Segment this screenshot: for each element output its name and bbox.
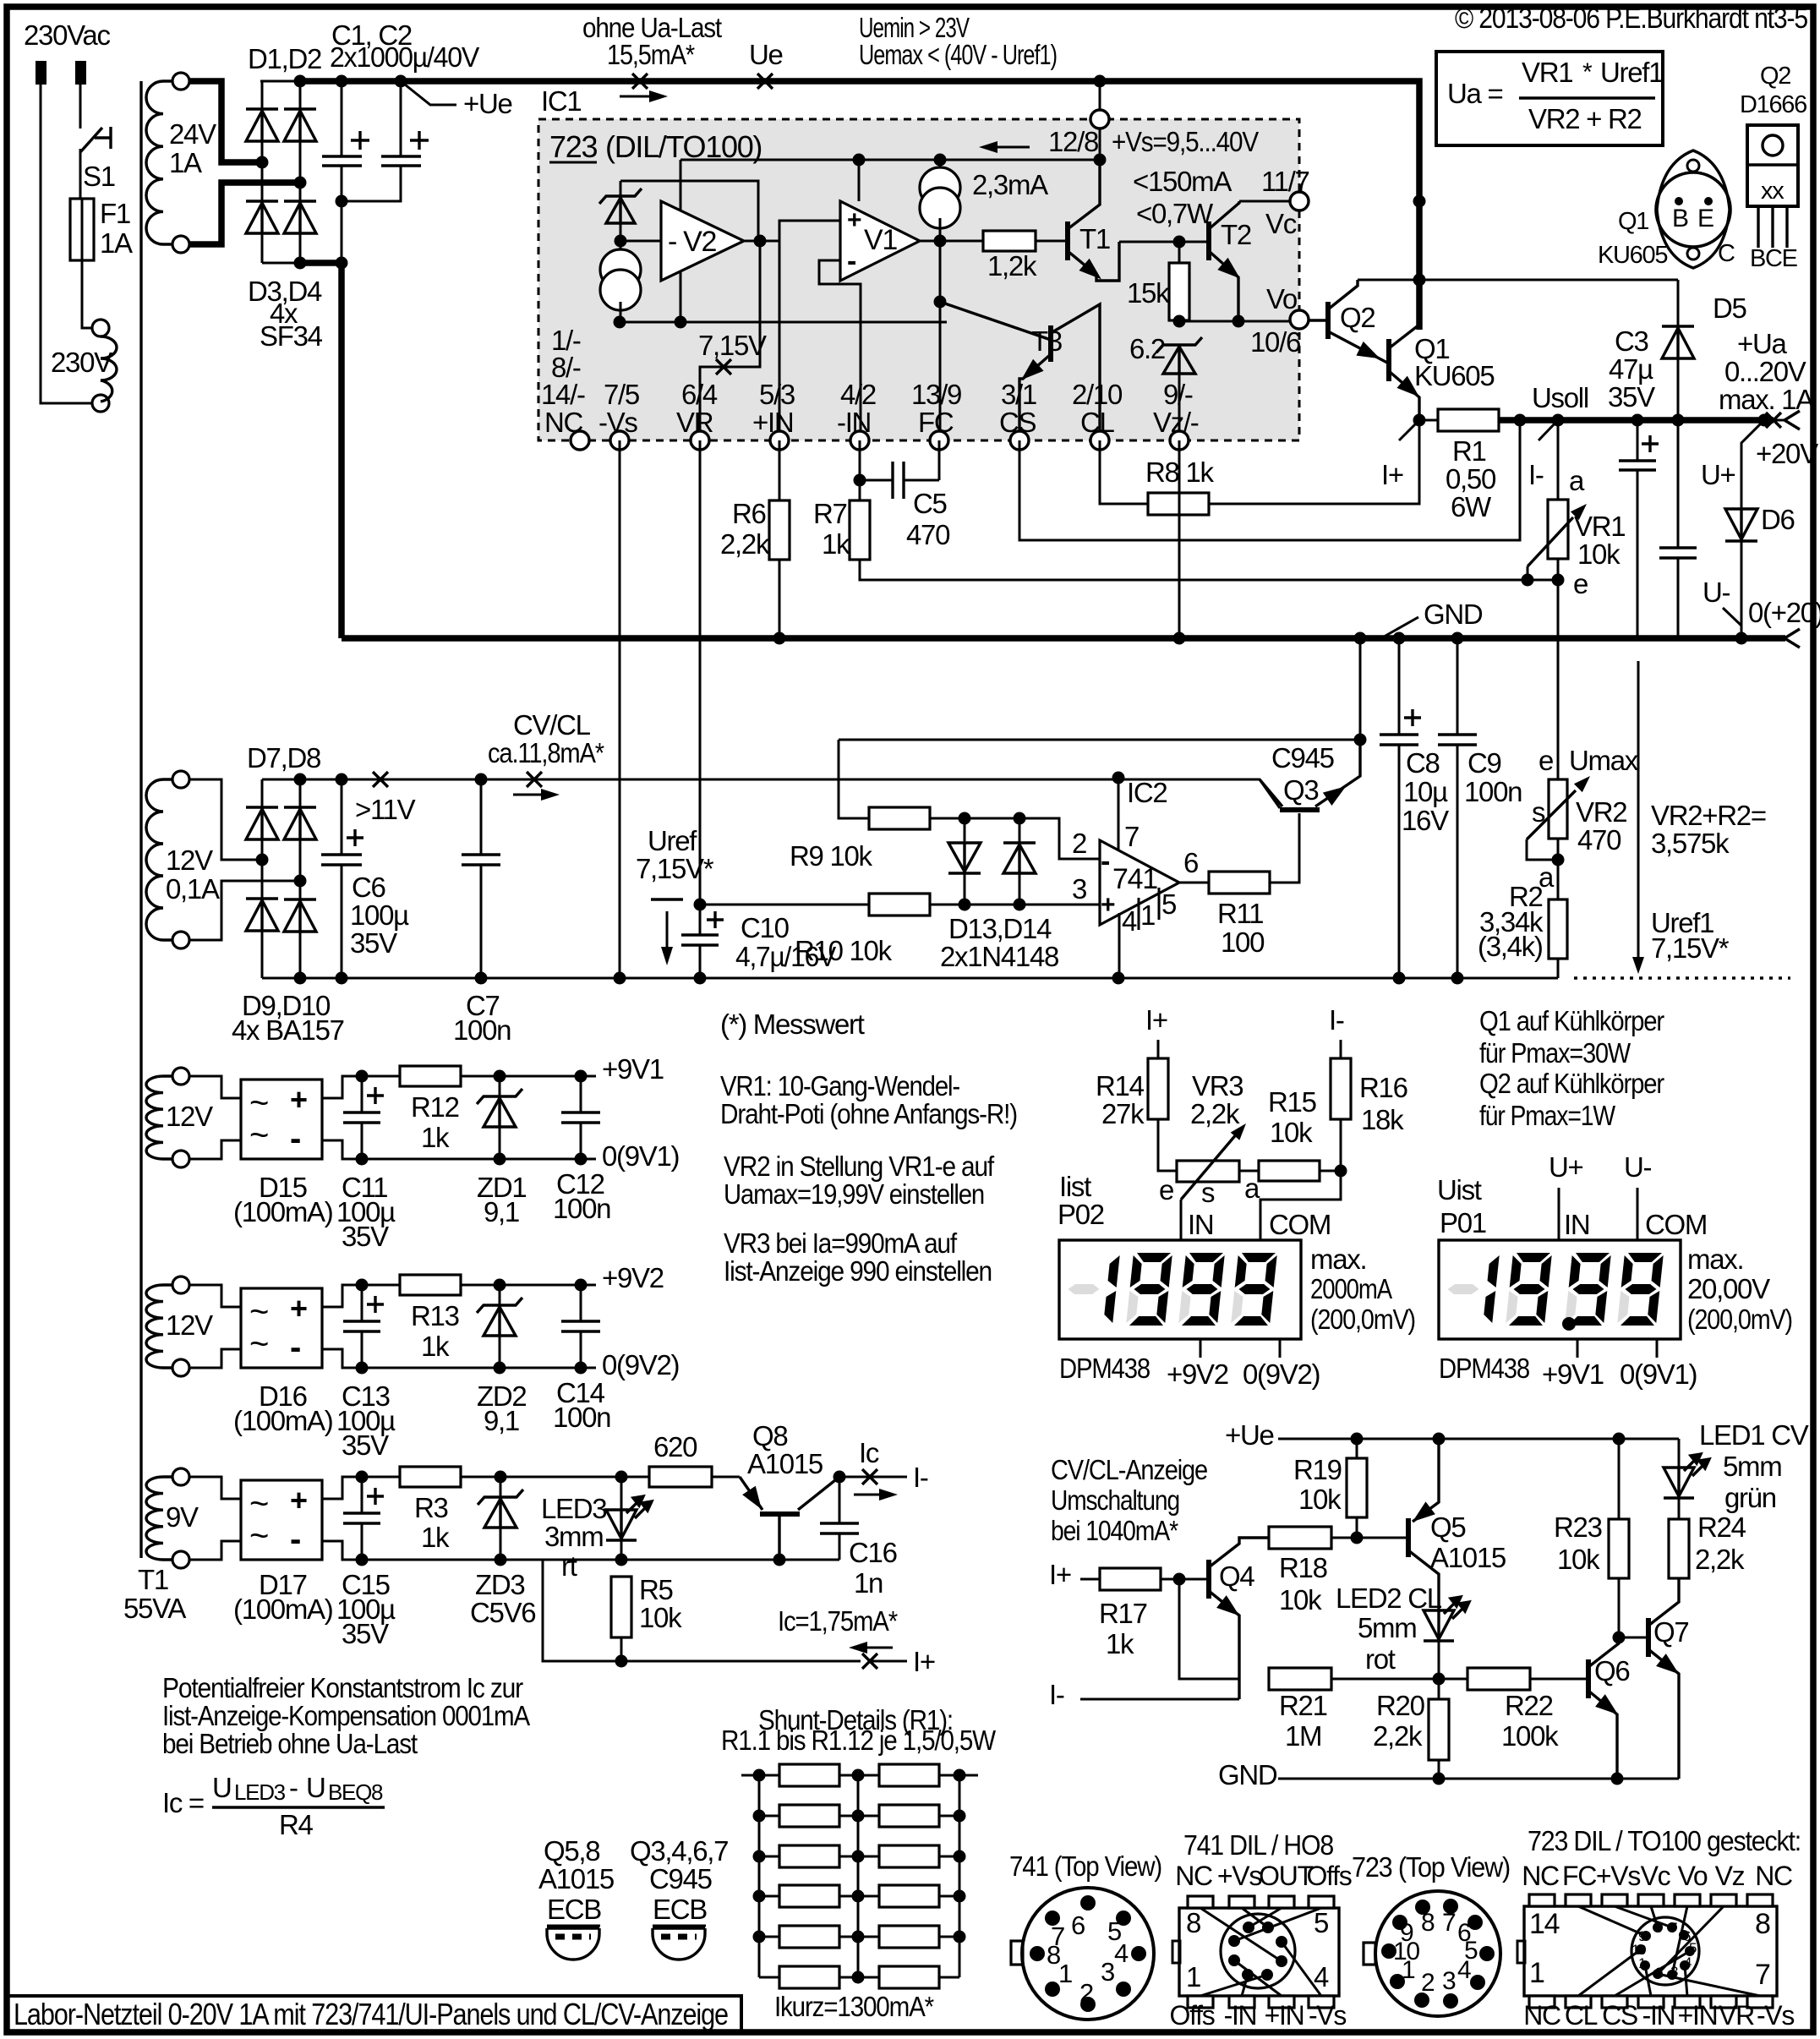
node R1 left xyxy=(1413,414,1426,427)
wire winding to block bottom xyxy=(189,1349,241,1368)
wire 723 internal +V rail xyxy=(680,160,682,322)
svg-text:max.: max. xyxy=(1687,1244,1743,1275)
svg-text:VR1: VR1 xyxy=(1574,511,1625,542)
break mark Ue xyxy=(757,74,773,89)
transistor Q4 xyxy=(1209,1538,1269,1699)
package Q1 KU605 TO3 xyxy=(1598,150,1735,269)
svg-text:2,3mA: 2,3mA xyxy=(972,169,1048,200)
svg-text:VR1: VR1 xyxy=(1522,57,1572,88)
svg-text:3: 3 xyxy=(1101,1957,1114,1987)
svg-text:max. 1A: max. 1A xyxy=(1719,384,1814,415)
svg-text:~: ~ xyxy=(249,1517,268,1555)
package Q3,4,6,7 C945 ECB xyxy=(630,1835,728,1960)
svg-text:E: E xyxy=(1697,205,1713,232)
svg-text:ECB: ECB xyxy=(653,1894,707,1925)
svg-text:2,2k: 2,2k xyxy=(1373,1720,1423,1752)
svg-text:Ic=1,75mA*: Ic=1,75mA* xyxy=(778,1605,898,1637)
svg-text:7: 7 xyxy=(1670,1920,1677,1936)
svg-text:+Ua: +Ua xyxy=(1737,328,1788,359)
svg-text:Uref: Uref xyxy=(648,825,697,856)
svg-text:ca.11,8mA*: ca.11,8mA* xyxy=(488,737,604,768)
svg-text:(*) Messwert: (*) Messwert xyxy=(720,1009,865,1040)
wire I+ stub xyxy=(870,1660,907,1663)
wire jog to I+ rail xyxy=(543,1560,861,1661)
svg-text:+Vs=9,5...40V: +Vs=9,5...40V xyxy=(1112,126,1259,157)
svg-text:-: - xyxy=(290,1120,300,1157)
svg-text:U+: U+ xyxy=(1549,1151,1583,1183)
svg-text:+Vs: +Vs xyxy=(1217,1861,1261,1891)
svg-text:T2: T2 xyxy=(1221,219,1251,250)
node T2 base 15k xyxy=(1173,236,1186,249)
mains plug pins xyxy=(36,61,86,85)
svg-text:VR2: VR2 xyxy=(1576,796,1626,828)
fuse F1 xyxy=(70,198,133,260)
diode D5 xyxy=(1662,280,1746,420)
wire mains right to switch xyxy=(79,85,82,128)
transformer winding 12V xyxy=(146,1068,213,1167)
node U+ stub xyxy=(1758,414,1771,427)
svg-text:0,1A: 0,1A xyxy=(166,873,220,905)
wire -IN down xyxy=(859,440,861,500)
svg-text:(200,0mV): (200,0mV) xyxy=(1687,1304,1792,1335)
svg-text:BCE: BCE xyxy=(1750,245,1798,272)
wire Q3 emitter riser to GND xyxy=(1359,638,1362,740)
meter P01 wiring xyxy=(1437,1151,1707,1240)
svg-text:10k: 10k xyxy=(1557,1544,1600,1575)
label max 20,00V xyxy=(1687,1244,1792,1335)
svg-text:D5: D5 xyxy=(1713,292,1746,324)
node V1 output xyxy=(934,235,947,248)
wire minus rail down to GND xyxy=(338,263,345,638)
svg-text:BEQ8: BEQ8 xyxy=(328,1779,383,1805)
svg-text:3,575k: 3,575k xyxy=(1651,828,1730,859)
svg-text:100n: 100n xyxy=(1464,776,1522,807)
wire winding to block bottom xyxy=(189,1541,241,1560)
wire Q2 collector line xyxy=(1358,279,1678,282)
wire 723 internal +V rail top xyxy=(680,159,1100,161)
svg-text:*: * xyxy=(1582,58,1593,86)
node GND C8 xyxy=(1393,632,1406,645)
wire V1 plus riser xyxy=(858,160,861,201)
svg-text:470: 470 xyxy=(1577,824,1621,856)
capacitor C5 470 xyxy=(860,462,950,550)
capacitor C9 xyxy=(1438,638,1522,978)
transformer 12V 0,1A winding xyxy=(146,771,220,948)
svg-text:13/9: 13/9 xyxy=(911,379,961,410)
svg-text:Offs: Offs xyxy=(1307,1861,1352,1891)
transformer winding 12V xyxy=(146,1276,213,1376)
pin label VR xyxy=(676,379,718,438)
svg-text:R1.1 bis R1.12 je 1,5/0,5W: R1.1 bis R1.12 je 1,5/0,5W xyxy=(721,1725,997,1756)
svg-text:bei 1040mA*: bei 1040mA* xyxy=(1051,1515,1178,1546)
node cvcl R23 xyxy=(1613,1433,1626,1446)
svg-text:e: e xyxy=(1573,568,1588,599)
svg-text:-: - xyxy=(1101,845,1109,877)
resistor R2 xyxy=(1549,839,1567,978)
svg-text:CV/CL: CV/CL xyxy=(513,709,591,741)
svg-text:Uemax < (40V - Uref1): Uemax < (40V - Uref1) xyxy=(859,39,1057,70)
svg-text:OUT: OUT xyxy=(1259,1861,1313,1891)
pin label Vz xyxy=(1153,379,1199,438)
svg-text:10k: 10k xyxy=(639,1602,682,1633)
resistor 1,2k xyxy=(983,231,1037,282)
label D9,D10 4x BA157 xyxy=(232,990,344,1046)
svg-text:7/5: 7/5 xyxy=(604,379,639,410)
bridge rectifier diode upper-left xyxy=(246,807,278,839)
resistor R7 1k xyxy=(813,498,870,560)
svg-text:24V: 24V xyxy=(169,118,216,150)
rectifier block D15 xyxy=(241,1080,322,1159)
svg-text:D1,D2: D1,D2 xyxy=(248,43,321,74)
resistor R17 1k xyxy=(1049,1559,1209,1659)
svg-text:e: e xyxy=(1539,745,1553,776)
svg-text:C8: C8 xyxy=(1406,747,1440,779)
LED3 xyxy=(541,1471,652,1583)
svg-text:1M: 1M xyxy=(1285,1720,1321,1752)
svg-text:+: + xyxy=(290,1291,307,1326)
wire Vz to GND xyxy=(1178,440,1181,638)
transistor Q5 xyxy=(1408,1439,1506,1610)
svg-text:NC: NC xyxy=(1523,2000,1560,2031)
wire R21 to LED2 node xyxy=(1331,1678,1439,1681)
label Iist P02 xyxy=(1058,1171,1104,1230)
svg-text:+9V1: +9V1 xyxy=(602,1053,664,1085)
label VR2 note xyxy=(724,1151,995,1210)
wire zener top feedback xyxy=(620,181,758,241)
capacitor C1 xyxy=(322,81,369,263)
wire R7 to VR1 wiper xyxy=(860,560,1559,580)
svg-text:-: - xyxy=(289,1772,298,1803)
transistor Q6 xyxy=(1588,1637,1629,1779)
wire 741 pin4 xyxy=(1118,913,1121,978)
svg-text:Ua =: Ua = xyxy=(1447,78,1502,109)
pinout 741 top view xyxy=(1009,1850,1161,2020)
svg-text:~: ~ xyxy=(249,1326,268,1363)
svg-text:1n: 1n xyxy=(854,1567,883,1599)
svg-text:1k: 1k xyxy=(421,1522,450,1553)
wire Q7 base xyxy=(1619,1637,1648,1639)
svg-text:(200,0mV): (200,0mV) xyxy=(1310,1304,1415,1335)
pin circles bottom xyxy=(571,431,1189,450)
stub I+ left xyxy=(1381,420,1419,490)
svg-text:rot: rot xyxy=(1365,1643,1396,1675)
svg-text:Q6: Q6 xyxy=(1594,1655,1629,1686)
svg-text:4: 4 xyxy=(1457,1956,1471,1984)
svg-text:5/3: 5/3 xyxy=(759,379,795,410)
svg-text:1A: 1A xyxy=(169,147,202,178)
svg-text:Ic =: Ic = xyxy=(162,1787,204,1818)
svg-text:+: + xyxy=(290,1082,307,1117)
label 723 (DIL/TO100) xyxy=(549,129,762,164)
bridge rectifier diode lower-left xyxy=(246,899,278,931)
svg-text:R12: R12 xyxy=(411,1091,459,1123)
svg-text:I+: I+ xyxy=(1049,1559,1071,1590)
svg-text:T1: T1 xyxy=(138,1564,168,1595)
wire R9 loop xyxy=(839,740,869,818)
resistor R4 620 xyxy=(649,1431,712,1487)
resistor R3 1k xyxy=(400,1467,461,1553)
svg-text:Q8: Q8 xyxy=(752,1420,787,1451)
svg-text:-: - xyxy=(290,1521,300,1558)
svg-text:R6: R6 xyxy=(732,498,766,529)
label D17 (100mA) xyxy=(233,1569,332,1625)
wire block plus out xyxy=(322,1076,596,1098)
node bridge AC2 xyxy=(294,875,307,888)
wire 723 minus rail xyxy=(620,321,947,324)
svg-text:Vo: Vo xyxy=(1678,1861,1708,1891)
node GND R20 xyxy=(1433,1773,1446,1785)
wire VR1 wiper down xyxy=(1527,566,1529,580)
svg-text:Q1 auf Kühlkörper: Q1 auf Kühlkörper xyxy=(1479,1005,1664,1036)
wire VR jog to V2 out xyxy=(700,241,760,440)
svg-text:LED3: LED3 xyxy=(541,1493,606,1524)
label Uref1 7,15V* xyxy=(1651,907,1730,964)
svg-text:Iist-Anzeige 990 einstellen: Iist-Anzeige 990 einstellen xyxy=(724,1255,992,1287)
bridge rectifier diode upper-left xyxy=(246,109,278,141)
node VR2 a xyxy=(1552,854,1565,866)
svg-text:I+: I+ xyxy=(913,1646,935,1677)
wire winding to block top xyxy=(189,1285,241,1307)
node R9 D13 xyxy=(959,812,971,825)
bridge rectifier diode upper-right xyxy=(284,807,316,839)
svg-text:+IN: +IN xyxy=(1678,2000,1718,2031)
pin label -IN xyxy=(837,379,876,438)
capacitor C7 xyxy=(453,779,511,1046)
svg-text:Q5: Q5 xyxy=(1430,1511,1465,1543)
pin label CL xyxy=(1072,379,1123,438)
arrow CV/CL xyxy=(513,794,541,796)
svg-text:CV/CL-Anzeige: CV/CL-Anzeige xyxy=(1051,1454,1207,1485)
svg-text:P02: P02 xyxy=(1058,1199,1104,1230)
node R6 GND xyxy=(773,632,786,645)
wire CL to R8 xyxy=(1100,440,1148,504)
svg-text:R21: R21 xyxy=(1279,1690,1327,1721)
svg-text:R23: R23 xyxy=(1554,1511,1602,1543)
package Q5,8 A1015 ECB xyxy=(538,1835,614,1960)
capacitor C11 xyxy=(336,1070,396,1253)
label Uemin Uemax xyxy=(859,12,1057,70)
svg-text:1A: 1A xyxy=(100,227,133,259)
node FC junction xyxy=(934,296,947,309)
wire Usoll to VR1 xyxy=(1557,420,1560,500)
svg-text:1k: 1k xyxy=(421,1122,450,1153)
svg-text:+9V2: +9V2 xyxy=(1167,1358,1228,1390)
svg-text:12V: 12V xyxy=(166,845,213,876)
svg-text:P01: P01 xyxy=(1440,1207,1486,1238)
svg-text:5: 5 xyxy=(1161,888,1176,920)
svg-text:4: 4 xyxy=(1314,1961,1329,1993)
svg-text:Vc: Vc xyxy=(1265,208,1297,239)
pin 12/8 +Vs xyxy=(1048,81,1259,160)
transistor T2 xyxy=(1209,201,1251,321)
svg-text:Vc: Vc xyxy=(1641,1861,1671,1891)
svg-text:+20V: +20V xyxy=(1756,438,1818,469)
node bridge bottom right xyxy=(294,972,307,985)
svg-text:(100mA): (100mA) xyxy=(233,1405,332,1436)
wire VR1e to VR2 xyxy=(1557,580,1560,779)
svg-text:35V: 35V xyxy=(1608,381,1655,413)
svg-text:-Vs: -Vs xyxy=(1309,2000,1346,2031)
svg-text:GND: GND xyxy=(1424,599,1483,630)
svg-text:0(9V1): 0(9V1) xyxy=(602,1140,679,1172)
transistor Q7 xyxy=(1648,1579,1688,1779)
svg-text:2: 2 xyxy=(1072,828,1086,859)
stub U+ D6 xyxy=(1701,420,1764,509)
svg-text:9,1: 9,1 xyxy=(484,1405,519,1436)
bridge column wires xyxy=(262,81,300,263)
break mark CV/CL xyxy=(527,772,542,787)
resistor R10 10k xyxy=(700,894,930,966)
svg-text:C9: C9 xyxy=(1467,747,1501,779)
svg-text:Q2: Q2 xyxy=(1340,302,1375,333)
capacitor C12 xyxy=(553,1070,610,1225)
svg-text:C16: C16 xyxy=(849,1537,897,1568)
label ohne Ua-Last 15,5mA* xyxy=(582,12,722,70)
svg-text:741 (Top View): 741 (Top View) xyxy=(1009,1850,1161,1882)
pin 10/6 Vo xyxy=(1250,283,1309,358)
node bridge AC1 xyxy=(256,156,269,169)
svg-text:9,1: 9,1 xyxy=(484,1196,519,1227)
svg-text:C5: C5 xyxy=(913,488,947,519)
pin label +IN xyxy=(752,379,795,438)
wire GND cvcl xyxy=(1218,1759,1679,1790)
svg-text:12V: 12V xyxy=(166,1309,213,1341)
node GND Q3 xyxy=(1354,632,1367,645)
transformer winding 9V xyxy=(146,1468,199,1568)
resistor R15 10k xyxy=(1239,1086,1320,1181)
svg-text:2,2k: 2,2k xyxy=(1190,1098,1240,1129)
dotted ref line xyxy=(1574,976,1790,979)
svg-text:VR1: 10-Gang-Wendel-: VR1: 10-Gang-Wendel- xyxy=(720,1070,959,1101)
svg-text:T1: T1 xyxy=(1079,223,1110,254)
svg-text:2,2k: 2,2k xyxy=(1695,1544,1745,1575)
svg-text:ZD3: ZD3 xyxy=(475,1569,524,1600)
svg-text:+Ue: +Ue xyxy=(463,88,512,119)
capacitor C3 xyxy=(1608,325,1659,638)
LED1 CV xyxy=(1664,1419,1809,1519)
zener ZD3 C5V6 xyxy=(470,1471,535,1629)
svg-text:Q5,8: Q5,8 xyxy=(544,1835,599,1867)
svg-text:100n: 100n xyxy=(453,1014,511,1046)
node rail11 C7 xyxy=(475,774,488,786)
formula box Ua xyxy=(1436,52,1663,145)
node -IN C5 xyxy=(854,474,866,487)
svg-text:6W: 6W xyxy=(1451,491,1492,522)
wire FC to C5 xyxy=(938,440,941,480)
svg-text:+: + xyxy=(290,1483,307,1517)
resistor R19 10k xyxy=(1293,1439,1367,1538)
svg-text:VR3 bei Ia=990mA auf: VR3 bei Ia=990mA auf xyxy=(724,1227,958,1259)
svg-text:2x1000µ/40V: 2x1000µ/40V xyxy=(330,41,479,73)
rectifier block D16 xyxy=(241,1288,322,1368)
diode D6 xyxy=(1725,504,1795,638)
svg-text:COM: COM xyxy=(1645,1209,1707,1240)
svg-text:R3: R3 xyxy=(414,1492,448,1523)
wire mains left to primary bottom xyxy=(41,85,91,403)
bridge column wires xyxy=(262,779,300,978)
measure line Uref1 xyxy=(1632,661,1644,974)
svg-text:R20: R20 xyxy=(1376,1690,1425,1721)
svg-text:723 (Top View): 723 (Top View) xyxy=(1352,1851,1510,1883)
svg-text:F1: F1 xyxy=(100,198,130,229)
svg-text:(100mA): (100mA) xyxy=(233,1196,332,1227)
capacitor C4 xyxy=(1659,420,1697,638)
svg-text:für Pmax=1W: für Pmax=1W xyxy=(1479,1100,1616,1131)
svg-text:5mm: 5mm xyxy=(1723,1451,1781,1482)
node rail0 C10 xyxy=(694,972,707,985)
wire block plus out xyxy=(322,1477,596,1499)
node +Ue Q2 col xyxy=(1413,274,1426,287)
svg-text:IN: IN xyxy=(1188,1209,1213,1240)
svg-text:100n: 100n xyxy=(553,1193,610,1224)
node top rail +Vs riser xyxy=(1094,75,1107,88)
label VR1 note xyxy=(720,1070,1017,1129)
break mark output xyxy=(1766,413,1781,428)
svg-text:Q2 auf Kühlkörper: Q2 auf Kühlkörper xyxy=(1479,1068,1664,1099)
GND rail end fork xyxy=(1784,629,1800,648)
capacitor C15 xyxy=(336,1471,396,1650)
wire +IN riser xyxy=(779,221,840,440)
formula Ic xyxy=(162,1772,385,1840)
svg-text:Q3: Q3 xyxy=(1283,774,1318,806)
svg-text:R4: R4 xyxy=(279,1809,314,1840)
label GND leader xyxy=(1380,599,1483,639)
svg-text:NC: NC xyxy=(1175,1861,1212,1891)
svg-text:+9V2: +9V2 xyxy=(602,1262,664,1293)
resistor R24 2,2k xyxy=(1669,1511,1746,1578)
svg-text:A1015: A1015 xyxy=(538,1863,614,1894)
wire 9V minus rail extend xyxy=(500,1559,839,1561)
svg-text:6: 6 xyxy=(1183,847,1198,878)
wire block minus out xyxy=(322,1140,596,1159)
pot VR3 2,2k xyxy=(1158,1070,1260,1208)
node R17 Q4 base xyxy=(1173,1573,1186,1586)
svg-text:FC: FC xyxy=(1562,1861,1596,1891)
pinout 723 DIL TO100 xyxy=(1517,1825,1801,2031)
bridge bottom rail xyxy=(262,262,300,265)
node C3 xyxy=(1631,414,1644,427)
svg-text:CS: CS xyxy=(1602,2000,1637,2031)
svg-text:-: - xyxy=(290,1329,300,1366)
svg-text:15k: 15k xyxy=(1127,277,1170,309)
svg-text:10k: 10k xyxy=(1270,1117,1313,1148)
svg-text:11/7: 11/7 xyxy=(1261,166,1309,197)
current source 723 left xyxy=(600,241,641,322)
wire Q3 emitter line xyxy=(839,739,1360,741)
svg-text:741 DIL / HO8: 741 DIL / HO8 xyxy=(1183,1829,1333,1861)
zener ZD2 9,1 xyxy=(477,1279,526,1437)
svg-text:2000mA: 2000mA xyxy=(1310,1273,1392,1304)
svg-text:3/1: 3/1 xyxy=(1001,379,1036,410)
wire -IN riser xyxy=(819,260,861,440)
node minus rail V2 xyxy=(675,316,687,329)
arrow into IC1 xyxy=(620,96,649,98)
svg-text:Potentialfreier Konstantstrom: Potentialfreier Konstantstrom Ic zur xyxy=(162,1672,523,1703)
bridge rectifier diode lower-right xyxy=(284,201,316,233)
svg-text:35V: 35V xyxy=(342,1429,389,1461)
svg-text:16V: 16V xyxy=(1402,805,1449,836)
label Uref 7,15V* xyxy=(636,825,714,965)
svg-text:Usoll: Usoll xyxy=(1532,382,1588,413)
svg-text:-Vs: -Vs xyxy=(1757,2000,1794,2031)
svg-text:grün: grün xyxy=(1724,1482,1776,1513)
node CS sense R1 right xyxy=(1514,414,1527,427)
transformer core xyxy=(139,81,142,1558)
potentiometer VR2 470 xyxy=(1527,776,1626,860)
transistor T1 xyxy=(1068,160,1119,281)
pin label CS xyxy=(999,379,1036,438)
svg-text:>11V: >11V xyxy=(355,794,416,825)
